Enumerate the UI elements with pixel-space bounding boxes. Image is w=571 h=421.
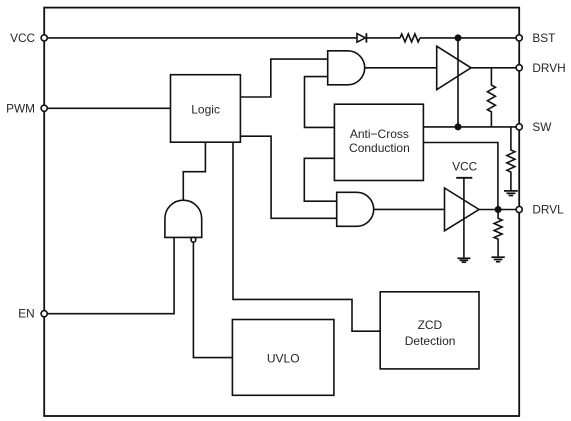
wire: high-side buffer output to DRVH pin — [471, 67, 519, 69]
low-side driver buffer — [445, 188, 480, 231]
Anti-Cross Conduction block — [334, 104, 423, 180]
pin circle: VCC — [41, 35, 47, 41]
svg-text:Detection: Detection — [405, 334, 456, 348]
wire: anti-cross left lower pin to low-side AND gate input A — [304, 158, 336, 201]
AND gate U2 (high-side) — [328, 51, 365, 85]
inverting bubble on U4 right input — [191, 237, 196, 242]
resistor DRVL to ground — [494, 210, 502, 257]
pin circle: BST — [516, 35, 522, 41]
svg-text:SW: SW — [532, 120, 552, 134]
wire: bootstrap resistor to BST pin — [420, 37, 519, 39]
high-side driver buffer — [437, 46, 471, 89]
wire: Logic bottom to enable AND gate output — [183, 142, 205, 200]
wire: low-side AND output to low-side buffer — [374, 208, 445, 210]
Logic block — [171, 75, 241, 143]
wire: diode cathode to bootstrap resistor — [366, 37, 400, 39]
junction dot: SW node — [455, 123, 462, 130]
wire: anti-cross right pin down to DRVL node — [423, 143, 498, 210]
svg-text:DRVH: DRVH — [532, 61, 565, 75]
wire: Logic output to low-side AND gate input B — [240, 136, 336, 218]
svg-text:PWM: PWM — [6, 101, 35, 115]
pin circle: DRVL — [516, 206, 522, 212]
pin circle: PWM — [41, 105, 47, 111]
svg-text:VCC: VCC — [452, 160, 477, 174]
wire: UVLO output to enable AND gate inverted input — [193, 242, 232, 358]
svg-text:Anti−Cross: Anti−Cross — [350, 127, 409, 141]
bootstrap resistor (horizontal zigzag) — [400, 34, 420, 42]
resistor DRVH to SW (gate pulldown) — [487, 68, 495, 127]
pin circle: DRVH — [516, 65, 522, 71]
wire: Logic output to high-side AND gate input A — [240, 59, 327, 97]
ground symbol (below low-side buffer) — [457, 258, 470, 262]
svg-text:BST: BST — [532, 31, 555, 45]
AND gate U3 (low-side) — [337, 192, 374, 226]
junction dot: DRVL node — [495, 206, 502, 213]
junction dot: BST node — [455, 34, 462, 41]
svg-text:VCC: VCC — [10, 31, 35, 45]
svg-text:UVLO: UVLO — [267, 351, 300, 365]
wire: SW rail from Anti-Cross block to SW pin — [423, 126, 519, 128]
bootstrap diode D1 (anode left, cathode bar right) — [357, 33, 366, 42]
svg-text:DRVL: DRVL — [532, 203, 564, 217]
AND gate U4 (enable gate, inverted input, points up) — [165, 200, 202, 237]
wire: PWM pin to Logic block — [44, 107, 170, 109]
svg-text:EN: EN — [18, 307, 34, 321]
VCC supply bar for low-side buffer — [456, 178, 472, 258]
ground symbol (below DRVL resistor) — [491, 257, 504, 262]
svg-text:ZCD: ZCD — [418, 318, 443, 332]
wire: BST node vertical down to SW node (through high-side buffer) — [457, 38, 459, 127]
pin circle: SW — [516, 124, 522, 130]
UVLO block — [232, 320, 334, 396]
ground symbol (below SW resistor) — [504, 191, 518, 196]
ZCD Detection block — [380, 292, 479, 369]
svg-text:Logic: Logic — [191, 103, 220, 117]
wire: EN pin to enable AND gate left input — [44, 237, 174, 313]
svg-text:Conduction: Conduction — [349, 141, 410, 155]
wire: Logic bottom to ZCD Detection block — [233, 142, 380, 331]
wire: anti-cross output to high-side AND gate input B — [305, 77, 335, 128]
wire: VCC rail from VCC pin to bootstrap diode — [44, 37, 357, 39]
resistor SW to ground — [507, 127, 515, 191]
pin circle: EN — [41, 311, 47, 317]
wire: low-side buffer output to DRVL pin — [479, 209, 519, 211]
wire: high-side AND output to high-side buffer — [365, 67, 437, 69]
